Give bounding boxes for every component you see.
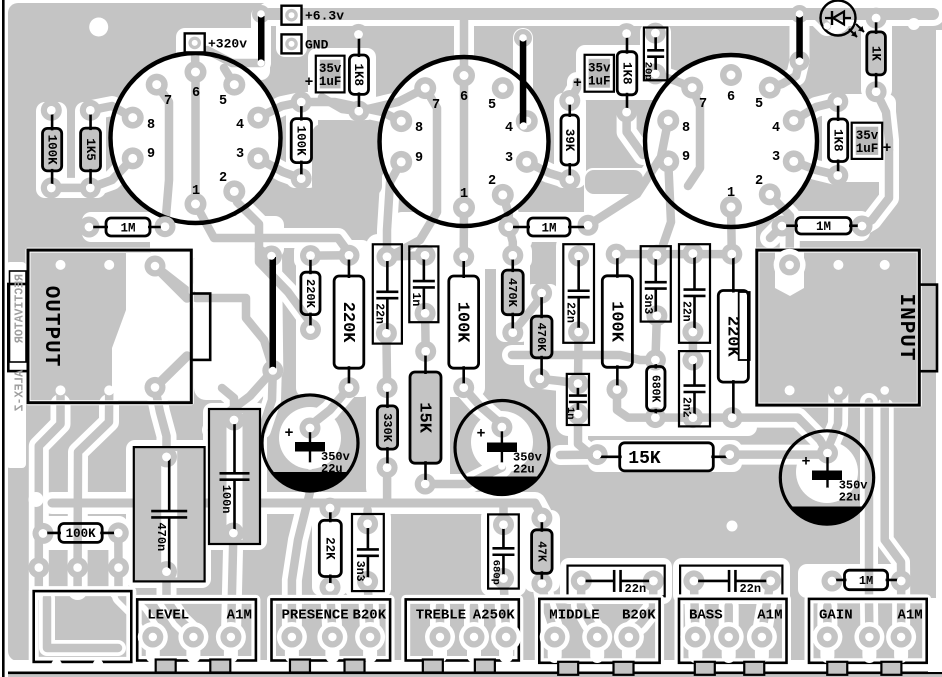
svg-text:OUTPUT: OUTPUT <box>39 286 62 368</box>
wire C-22n-h2 left to BASS left <box>694 581 696 633</box>
mounting hole mid-left <box>29 492 44 507</box>
wire R-330K bottom to bus (clearance) <box>377 468 397 500</box>
etch pool around +320v and jumper W1 <box>176 28 270 80</box>
board frame left edge <box>2 0 5 677</box>
svg-text:+: + <box>801 454 810 471</box>
svg-text:B20K: B20K <box>622 608 656 624</box>
jumper J4 corridor <box>790 14 810 61</box>
wire C-100n top stub <box>222 388 234 420</box>
wire PRESENCE left stub (clearance) <box>292 492 310 633</box>
svg-text:6: 6 <box>192 86 200 101</box>
etch pool around R-1M-d <box>798 564 910 598</box>
wire C-22n-b bottom to C-2n2 top <box>689 332 698 360</box>
svg-text:2: 2 <box>755 174 763 189</box>
tube socket V3 pin numbers <box>682 90 780 201</box>
bottom edge clearance strip <box>8 660 942 672</box>
wire OUTPUT pad diagonal <box>155 266 273 368</box>
svg-text:1K: 1K <box>868 46 882 62</box>
wire TREBLE stubs (clearance) <box>430 606 450 633</box>
wire V1 pin9 to ground strap (clearance) <box>90 158 132 188</box>
etch pool inside cap EL3 <box>796 441 858 503</box>
svg-text:RECTIVATOR: RECTIVATOR <box>14 274 27 343</box>
tube socket V3 body <box>645 55 817 227</box>
etch pool bottom joint of R-100K-a/R-1K5 <box>38 178 102 198</box>
svg-text:7: 7 <box>164 94 172 109</box>
wire R-1M-c left stub <box>770 226 782 238</box>
etch pool 3n3-a strip <box>634 239 677 328</box>
etch pool inside cap EL2 <box>471 411 533 473</box>
etch pool 100K-big-a strip <box>442 247 485 397</box>
wire V1 pin2 to jumper J2 top (clearance) <box>234 191 271 256</box>
capacitor 100n <box>209 409 260 544</box>
etch pool around C-1uF-c / R-1K8-c <box>822 94 896 182</box>
capacitor 22n (a) <box>372 244 401 343</box>
wire C-100n bottom to LEVEL right (clearance) <box>231 533 233 633</box>
capacitor 470n <box>134 446 205 582</box>
etch pool below tube V3 <box>584 168 756 262</box>
svg-text:1M: 1M <box>816 220 831 234</box>
wire R-39K top to C-1uF-b <box>570 82 577 101</box>
etch pool inside cap EL1 <box>279 407 341 469</box>
wire V1 pin5 stub <box>224 68 234 85</box>
svg-text:+: + <box>284 425 293 442</box>
svg-text:TREBLE: TREBLE <box>416 608 466 624</box>
svg-text:4: 4 <box>505 121 513 136</box>
wire C-20p bottom to V3 pin7 (clearance) <box>655 74 692 88</box>
wire R-1K8-b bottom stub <box>627 112 643 155</box>
wire V1 pin7 to R-1M-a (clearance) <box>157 85 169 227</box>
etch pool right of OUTPUT <box>194 248 264 400</box>
wire long ground bus (clearance) <box>52 503 542 516</box>
wire R-680K bottom strap (clearance) <box>655 408 732 428</box>
wire GAIN left pad up (clearance) <box>817 606 837 633</box>
svg-text:3: 3 <box>505 151 513 166</box>
via center-bottom <box>727 521 738 532</box>
wire V1 pin2 to jumper J2 top <box>234 191 271 256</box>
svg-text:LEVEL: LEVEL <box>147 608 189 624</box>
wire R-100K-big-a bottom to cap EL2 <box>464 388 502 425</box>
wire C-1n-b bottom to R-15K-h left <box>578 414 597 455</box>
svg-text:220K: 220K <box>303 279 317 309</box>
wire R-100K-big-a bottom to cap EL2 (clearance) <box>464 388 502 425</box>
svg-text:1: 1 <box>460 187 468 202</box>
wire BASS mid stub (clearance) <box>719 606 739 633</box>
potentiometer MIDDLE B20K <box>539 599 659 675</box>
capacitor 2n2 <box>679 350 710 429</box>
svg-text:GND: GND <box>305 37 329 52</box>
terminal GND <box>282 34 329 53</box>
capacitor 1n (a) <box>409 245 438 324</box>
wire V1 pin8 to R-1K5 top <box>90 106 132 118</box>
wire C-22n-h1 right to MIDDLE right <box>629 581 654 633</box>
wire INPUT return pair B <box>885 390 902 634</box>
resistor 1K (LED) <box>866 8 887 103</box>
svg-text:BASS: BASS <box>689 608 723 624</box>
wire C-22n-a to C-1n-a tops (clearance) <box>387 255 425 256</box>
wire OUTPUT pad2 to C-470n top (clearance) <box>155 387 167 457</box>
svg-text:+320v: +320v <box>208 36 247 51</box>
wire 470K-b bottom lateral <box>512 355 655 360</box>
etch pool around R-1M-c <box>774 211 870 241</box>
resistor 1K8 (b) <box>616 23 637 123</box>
etch pool around C-680p <box>481 508 526 596</box>
svg-text:100K: 100K <box>294 126 308 157</box>
wire 220K-a top to 220K-big-a top <box>311 251 350 260</box>
wire V1 pin9 to ground strap <box>90 158 132 188</box>
wire R-100K-a / R-1K5 bottom strap (clearance) <box>51 178 90 198</box>
svg-text:+: + <box>883 141 892 157</box>
capacitor electrolytic 350v 22u (EL3) <box>780 431 873 524</box>
top-right corner cutout <box>916 0 942 18</box>
wire R-100K-b top to V2 pin8 <box>301 102 401 121</box>
wire V1 pin2 branch to 220K-a bottom (clearance) <box>259 249 311 330</box>
etch pool 220K-big-b strip <box>711 246 758 430</box>
etch pool around R-100K-a <box>36 102 67 198</box>
etch pool INPUT signal pad pocket <box>775 252 804 296</box>
etch pool +6.3v/GND column <box>276 2 307 57</box>
svg-text:6: 6 <box>460 90 468 105</box>
resistor 220K (small) <box>300 245 321 340</box>
connector OUTPUT <box>8 250 210 403</box>
wire R-15K-v bottom to cap EL2 minus (clearance) <box>425 468 502 484</box>
svg-text:22u: 22u <box>839 491 861 505</box>
wire R-1M-b right to V3 pin8 <box>588 121 668 226</box>
svg-text:1K5: 1K5 <box>83 138 97 161</box>
etch pool around R-22K <box>312 498 348 596</box>
wire V2 pin6 to heater rail <box>460 16 469 76</box>
tube socket V2 body <box>380 57 549 226</box>
resistor 100K (bottom-left) <box>33 522 129 544</box>
tube socket V1 pin numbers <box>147 86 244 199</box>
wire R-100K-big-b bottom down <box>617 390 655 418</box>
svg-text:35v: 35v <box>319 62 342 76</box>
svg-text:A1M: A1M <box>227 608 252 624</box>
wire R-22K top to bus (clearance) <box>320 503 340 508</box>
svg-text:B20K: B20K <box>352 608 386 624</box>
capacitor 35v 1uF (b) <box>573 55 614 92</box>
wire J2 bottom to 100n pool <box>212 371 273 431</box>
wire V1 pin4 to R-100K-b top <box>258 102 301 118</box>
jumper wire J3 <box>514 29 532 130</box>
etch pool 22n-b/2n2 strip <box>673 238 716 432</box>
svg-text:1K8: 1K8 <box>619 62 633 85</box>
wire C-22n-h1 left to MIDDLE mid <box>581 581 597 633</box>
svg-text:1M: 1M <box>120 221 135 235</box>
tube socket V2 pin pads <box>390 65 538 219</box>
mounting hole top-right <box>908 18 920 30</box>
tube socket V2 pin numbers <box>415 90 513 202</box>
etch pool 680K strip <box>640 350 716 432</box>
silkscreen mirrored text ALEX <box>10 271 27 412</box>
wire R-15K-h left stub (clearance) <box>560 445 597 465</box>
wire C-680p bottom to TREBLE right <box>504 578 507 633</box>
wire BASS mid stub <box>724 606 733 633</box>
wire R-1K bottom to C-1uF-c (clearance) <box>876 92 889 150</box>
wire 470K-b bottom pad <box>540 379 578 384</box>
resistor 22K <box>319 498 341 598</box>
svg-text:4: 4 <box>772 121 780 136</box>
connector bottom-left <box>34 591 132 670</box>
wire TREBLE stubs <box>436 606 445 633</box>
wire 220K-big-a bottom to cap EL1 <box>310 388 349 428</box>
wire C-100n top stub (clearance) <box>222 388 234 420</box>
svg-text:PRESENCE: PRESENCE <box>282 608 349 624</box>
svg-text:MIDDLE: MIDDLE <box>549 608 599 624</box>
wire C-1uF-a plus to R-1K8-a bottom (clearance) <box>322 97 359 111</box>
wire V3 pin7 internal (clearance) <box>688 88 700 186</box>
svg-text:3n3: 3n3 <box>353 561 366 582</box>
resistor 15K (vertical) <box>410 341 441 495</box>
resistor 220K (big b) <box>718 244 749 429</box>
svg-text:1K8: 1K8 <box>351 63 365 86</box>
etch pool mid cluster row 1 <box>294 242 532 269</box>
svg-text:680p: 680p <box>489 560 501 585</box>
wire R-1M-c left stub (clearance) <box>770 226 782 238</box>
resistor 1K8 (c) <box>827 91 848 186</box>
wire OUTPUT hole A down (clearance) <box>78 404 109 590</box>
wire bus spur to C-680p <box>499 503 508 525</box>
wire C-22n-h1 left to MIDDLE mid (clearance) <box>581 581 597 633</box>
capacitor 22n (h1) <box>568 566 665 597</box>
resistor 1M (c) <box>772 216 873 237</box>
mounting hole top-left <box>89 18 108 37</box>
capacitor 35v 1uF (c) <box>852 123 892 159</box>
wire C-3n3-b top stub <box>363 510 372 524</box>
wire C-1n-a bottom to R-15K-v top (clearance) <box>415 313 436 351</box>
svg-text:6: 6 <box>727 90 735 105</box>
wire V3 pin2 to INPUT pad <box>770 194 790 265</box>
wire +6.3v heater rail (clearance) <box>269 2 933 26</box>
wire C-3n3-b top stub (clearance) <box>358 510 378 524</box>
wire V1 pin5 stub (clearance) <box>224 68 234 85</box>
wire V1 pin4 to R-100K-b top (clearance) <box>258 102 301 118</box>
wire long ground bus <box>52 503 542 516</box>
svg-text:9: 9 <box>682 150 690 165</box>
wire V2 pin6 to pin1 <box>460 76 469 208</box>
resistor 220K (big a) <box>334 245 364 398</box>
svg-text:8: 8 <box>415 121 423 136</box>
wire OUTPUT hole A down <box>78 390 110 590</box>
etch pool 330K strip <box>370 380 404 478</box>
wire C-470n bottom to LEVEL (clearance) <box>167 572 194 633</box>
wire V2 pin2 to R-1M-b left (clearance) <box>503 195 509 227</box>
wire V3 pin3 to R-1K8-c bottom <box>794 161 838 175</box>
svg-text:1: 1 <box>192 184 200 199</box>
LED D1 <box>821 1 880 38</box>
wire V2 pin1 to R-100K-big-a (clearance) <box>454 208 474 257</box>
wire J2 bottom to 100n pool (clearance) <box>212 371 273 431</box>
wire GAIN left pad up <box>823 606 832 633</box>
wire R-22K bottom to PRESENCE <box>330 587 332 633</box>
tube socket V2 outline <box>380 57 549 226</box>
wire R-15K-v bottom to cap EL2 minus <box>425 468 502 484</box>
wire R-680K bottom strap <box>655 413 732 422</box>
wire jumper J1 lower pad link (clearance) <box>207 50 261 63</box>
wire C-22n-c bottom to C-1n-b top <box>574 332 583 384</box>
jumper J3 corridor <box>513 38 533 130</box>
left edge silk strip <box>6 262 26 468</box>
wire INPUT return pair A (clearance) <box>860 402 878 634</box>
wire C-22n-h2 right to BASS right (clearance) <box>762 581 771 633</box>
wire V3 row strap <box>616 250 732 259</box>
svg-text:4: 4 <box>236 118 244 133</box>
wire INPUT pad to cap EL3 (clearance) <box>828 390 839 453</box>
wire jumper J3 bottom to V2 pin4 (clearance) <box>523 121 527 126</box>
etch pool around C-3n3-b <box>345 508 391 598</box>
pad row above bottom-left connector <box>28 557 129 578</box>
wire R-1M-b left to 470K-a top <box>509 227 513 256</box>
wire jumper J3 bottom to V2 pin4 <box>523 121 527 126</box>
svg-text:22u: 22u <box>321 462 343 476</box>
svg-text:1n: 1n <box>409 292 422 306</box>
wire OUTPUT pad diagonal (clearance) <box>155 266 273 368</box>
etch pool 15K vertical strip <box>403 344 448 494</box>
svg-text:22u: 22u <box>513 463 535 477</box>
wire V2 pin9 to C-22n-a top (clearance) <box>387 162 401 257</box>
wire INPUT return pair B (clearance) <box>885 407 902 634</box>
wire C-1uF-a plus to R-1K8-a bottom <box>322 97 359 111</box>
potentiometer BASS A1M <box>679 599 787 675</box>
wire inside bottom-left connector <box>47 598 118 648</box>
etch pool 22n/1n strips <box>366 237 446 352</box>
svg-text:8: 8 <box>147 118 155 133</box>
svg-text:9: 9 <box>415 151 423 166</box>
wire V2 pin6 to pin1 (clearance) <box>454 76 474 208</box>
wire INPUT pad to cap EL3 <box>828 390 839 453</box>
svg-text:5: 5 <box>755 97 763 112</box>
wire EL1 left channel (clearance) <box>262 371 273 431</box>
wire R-15K-h left stub <box>560 450 597 459</box>
wire R-100K-c right pad down (clearance) <box>108 533 128 590</box>
svg-text:15K: 15K <box>628 449 661 469</box>
svg-text:39K: 39K <box>562 129 576 152</box>
wire V3 pin1 to 220K-big-b top (clearance) <box>721 207 742 254</box>
svg-text:1K8: 1K8 <box>830 129 844 152</box>
resistor 15K (horizontal) <box>587 443 741 471</box>
resistor 470K (b) <box>529 283 552 390</box>
tube socket V1 body <box>111 53 281 223</box>
wire V1 pin8 to R-1K5 top (clearance) <box>90 106 132 118</box>
capacitor electrolytic 350v 22u (EL1) <box>262 395 358 491</box>
right edge clearance strip <box>936 30 942 661</box>
wire V1 pin3 to R-100K-b bottom (clearance) <box>258 158 301 178</box>
wire INPUT return pair A <box>865 402 874 634</box>
wire R-15K-h right to cap EL3 plus <box>730 450 828 459</box>
wire EL1 left channel <box>262 371 273 431</box>
wire V1 pin6 to pin1 and plate row (clearance) <box>186 72 206 204</box>
jumper J2 corridor <box>272 256 273 371</box>
etch pool around R-1M-a <box>82 212 176 242</box>
svg-text:470K: 470K <box>505 278 519 308</box>
svg-text:1M: 1M <box>541 221 556 235</box>
etch pool 1n-b strip <box>560 368 596 432</box>
wire 470K-a bottom to 470K-b top <box>513 293 542 333</box>
wire R-1M-b left to 470K-a top (clearance) <box>509 227 513 256</box>
wire 220K-a top to 220K-big-a top (clearance) <box>311 245 350 265</box>
jumper wire J2 <box>261 246 283 382</box>
wire V3 pin9 to C-3n3-a top (clearance) <box>657 161 671 255</box>
wire OUTPUT pad2 to C-470n top <box>155 387 167 457</box>
wire C-100n bottom to LEVEL right <box>231 533 233 633</box>
svg-text:INPUT: INPUT <box>894 293 917 361</box>
board frame bottom edge <box>8 672 942 675</box>
etch pool around R-1K5 <box>75 102 106 198</box>
wire V2 pin2 to R-1M-b left <box>503 195 509 227</box>
wire V1 pin7 to R-1M-a <box>157 85 169 227</box>
wire R-15K-h right to cap EL3 plus (clearance) <box>730 445 828 465</box>
wire R-100K-b top to V2 pin8 (clearance) <box>301 102 401 121</box>
etch pool bottom-right corner <box>928 598 942 672</box>
wire C-1uF-c to R-1M-c right <box>862 150 889 226</box>
etch pool 22n-c strip <box>557 238 600 342</box>
potentiometer LEVEL A1M <box>137 599 256 672</box>
wire V1 pin1 down to 220K row (clearance) <box>196 204 350 253</box>
tube socket V1 outline <box>111 53 281 223</box>
etch pool 100K-big-b strip <box>596 247 639 399</box>
etch pool cluster2 block <box>556 234 716 436</box>
svg-text:GAIN: GAIN <box>819 608 853 624</box>
resistor 1K5 <box>80 100 101 199</box>
svg-text:100K: 100K <box>66 527 97 541</box>
wire R-100K-a / R-1K5 bottom strap <box>51 184 90 193</box>
etch pool 470K strips <box>496 246 559 388</box>
svg-text:+: + <box>305 75 314 91</box>
wire C-22n-h2 left to BASS left (clearance) <box>694 581 696 633</box>
etch pool around C-100n <box>203 403 267 550</box>
svg-text:7: 7 <box>699 97 707 112</box>
wire V1 pin1 down to 220K row <box>196 204 350 253</box>
svg-text:470n: 470n <box>154 522 168 551</box>
wire C-3n3-a bottom to R-680K top <box>655 316 657 360</box>
wire +320v pad to tube V1 pin 6 <box>190 44 199 72</box>
wire V3 pin4 to R-1K8-c top <box>794 102 838 121</box>
wire R-1K bottom to C-1uF-c <box>876 92 889 150</box>
wire 220K-big-b bottom to cap EL3 <box>732 418 827 453</box>
wire C-1n-b bottom to R-15K-h left (clearance) <box>578 414 597 455</box>
etch pool around C-470n <box>126 440 211 588</box>
svg-text:5: 5 <box>219 94 227 109</box>
svg-text:5: 5 <box>488 98 496 113</box>
svg-text:20p: 20p <box>642 62 654 81</box>
etch pool around C-1uF-b / R-1K8-b <box>576 45 670 100</box>
resistor 330K <box>377 377 398 478</box>
svg-text:22n: 22n <box>372 303 385 324</box>
connector INPUT <box>757 249 937 405</box>
resistor 680K <box>645 350 666 429</box>
wire R-1M-b right to V3 pin8 (clearance) <box>588 121 668 226</box>
capacitor 20p <box>642 23 668 85</box>
capacitor 3n3 (b) <box>352 513 384 592</box>
svg-text:+6.3v: +6.3v <box>305 9 344 24</box>
copper island between V1 and V2 <box>312 124 382 196</box>
svg-text:100K: 100K <box>44 135 58 166</box>
etch pool below tube V2 <box>393 212 532 250</box>
etch pool mid column <box>366 234 450 500</box>
wire C-680p bottom to TREBLE right (clearance) <box>504 578 507 633</box>
tube socket V3 outline <box>645 55 817 227</box>
svg-text:7: 7 <box>432 98 440 113</box>
wire C-22n-h1 right to MIDDLE right (clearance) <box>629 581 654 633</box>
etch pool around C-20p <box>640 23 671 86</box>
wire C-1uF-c to R-1M-c right (clearance) <box>862 150 889 226</box>
svg-text:470K: 470K <box>534 323 548 353</box>
wire R-1K8-a bottom to V2 pin7 <box>359 88 425 111</box>
wire R-47K bottom to MIDDLE left <box>542 584 555 634</box>
capacitor 22n (b) <box>679 243 710 343</box>
wire R-22K bottom to PRESENCE (clearance) <box>330 587 332 633</box>
wire jumper J4 bottom to V3 pin5 (clearance) <box>770 61 800 88</box>
svg-text:22n: 22n <box>739 582 761 596</box>
